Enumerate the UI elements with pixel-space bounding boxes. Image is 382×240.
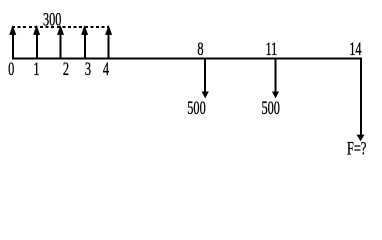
svg-text:3: 3 xyxy=(85,59,91,79)
svg-text:1: 1 xyxy=(33,59,39,79)
up arrow t=4 xyxy=(105,25,112,59)
up arrow t=1 xyxy=(33,25,40,59)
dashed line xyxy=(12,26,109,28)
down arrow t=14 xyxy=(357,59,365,141)
up arrow t=3 xyxy=(81,25,88,59)
timeline axis xyxy=(12,58,362,60)
down arrow t=11 xyxy=(272,59,279,98)
svg-text:8: 8 xyxy=(197,39,203,59)
svg-text:500: 500 xyxy=(261,99,280,119)
svg-text:500: 500 xyxy=(187,99,206,119)
up arrow t=0 xyxy=(9,25,16,59)
down arrow t=8 xyxy=(202,59,209,98)
svg-text:F=?: F=? xyxy=(347,139,366,158)
up arrow t=2 xyxy=(57,25,64,59)
svg-text:11: 11 xyxy=(265,39,277,59)
svg-text:4: 4 xyxy=(103,59,109,79)
svg-text:2: 2 xyxy=(63,59,69,79)
svg-text:0: 0 xyxy=(8,59,14,79)
svg-text:14: 14 xyxy=(349,39,361,59)
